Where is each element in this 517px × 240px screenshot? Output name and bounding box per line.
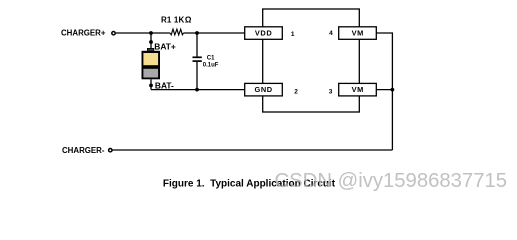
- svg-text:VM: VM: [352, 85, 364, 94]
- svg-text:CSDN @ivy15986837715: CSDN @ivy15986837715: [275, 170, 508, 192]
- svg-text:GND: GND: [254, 85, 272, 94]
- pin VM top box: [339, 27, 377, 40]
- wire bottom rail: [113, 149, 393, 151]
- wire top rail left: [116, 32, 170, 34]
- junction C1 bottom: [195, 88, 199, 92]
- watermark: [275, 170, 508, 193]
- svg-text:0.1uF: 0.1uF: [203, 63, 219, 69]
- pin number 1: [291, 31, 295, 38]
- svg-text:1: 1: [291, 31, 295, 38]
- pin number 2: [294, 89, 298, 96]
- label CHARGER+: [61, 29, 106, 38]
- junction VM right rail: [391, 88, 395, 92]
- svg-text:R1 1K: R1 1K: [161, 16, 184, 25]
- pin number 3: [329, 88, 333, 95]
- svg-text:2: 2: [294, 89, 298, 96]
- junction battery top: [149, 31, 153, 35]
- capacitor C1: [193, 33, 219, 90]
- resistor R1: [161, 16, 192, 35]
- pin VDD box: [245, 27, 283, 40]
- wire bottom rail to GND: [151, 89, 245, 91]
- pin VM bottom box: [339, 83, 377, 96]
- IC U1 body: [263, 9, 360, 112]
- label CHARGER-: [62, 146, 105, 155]
- label BAT-: [155, 80, 174, 90]
- caption Figure 1: [163, 179, 336, 190]
- svg-text:4: 4: [329, 30, 333, 37]
- label BAT+: [154, 42, 176, 52]
- node BAT+: [149, 40, 153, 44]
- junction C1 top: [195, 31, 199, 35]
- svg-text:CHARGER+: CHARGER+: [61, 29, 106, 38]
- wire VM top to right rail: [376, 33, 392, 150]
- wire battery positive lead: [150, 33, 152, 49]
- battery BT1: [142, 48, 161, 79]
- pin number 4: [329, 30, 333, 37]
- svg-text:VM: VM: [352, 29, 364, 38]
- wire VM bottom to right rail: [376, 89, 392, 91]
- terminal CHARGER+: [112, 32, 115, 35]
- node BAT-: [149, 84, 153, 88]
- svg-text:Ω: Ω: [185, 16, 192, 25]
- svg-text:CHARGER-: CHARGER-: [62, 146, 105, 155]
- terminal CHARGER-: [109, 149, 112, 152]
- svg-text:C1: C1: [207, 56, 215, 62]
- wire top rail right: [183, 32, 244, 34]
- svg-text:BAT+: BAT+: [154, 42, 176, 52]
- svg-text:3: 3: [329, 88, 333, 95]
- svg-text:BAT-: BAT-: [155, 80, 174, 90]
- svg-text:VDD: VDD: [255, 29, 272, 38]
- wire battery negative lead: [150, 79, 152, 89]
- pin GND box: [245, 83, 283, 96]
